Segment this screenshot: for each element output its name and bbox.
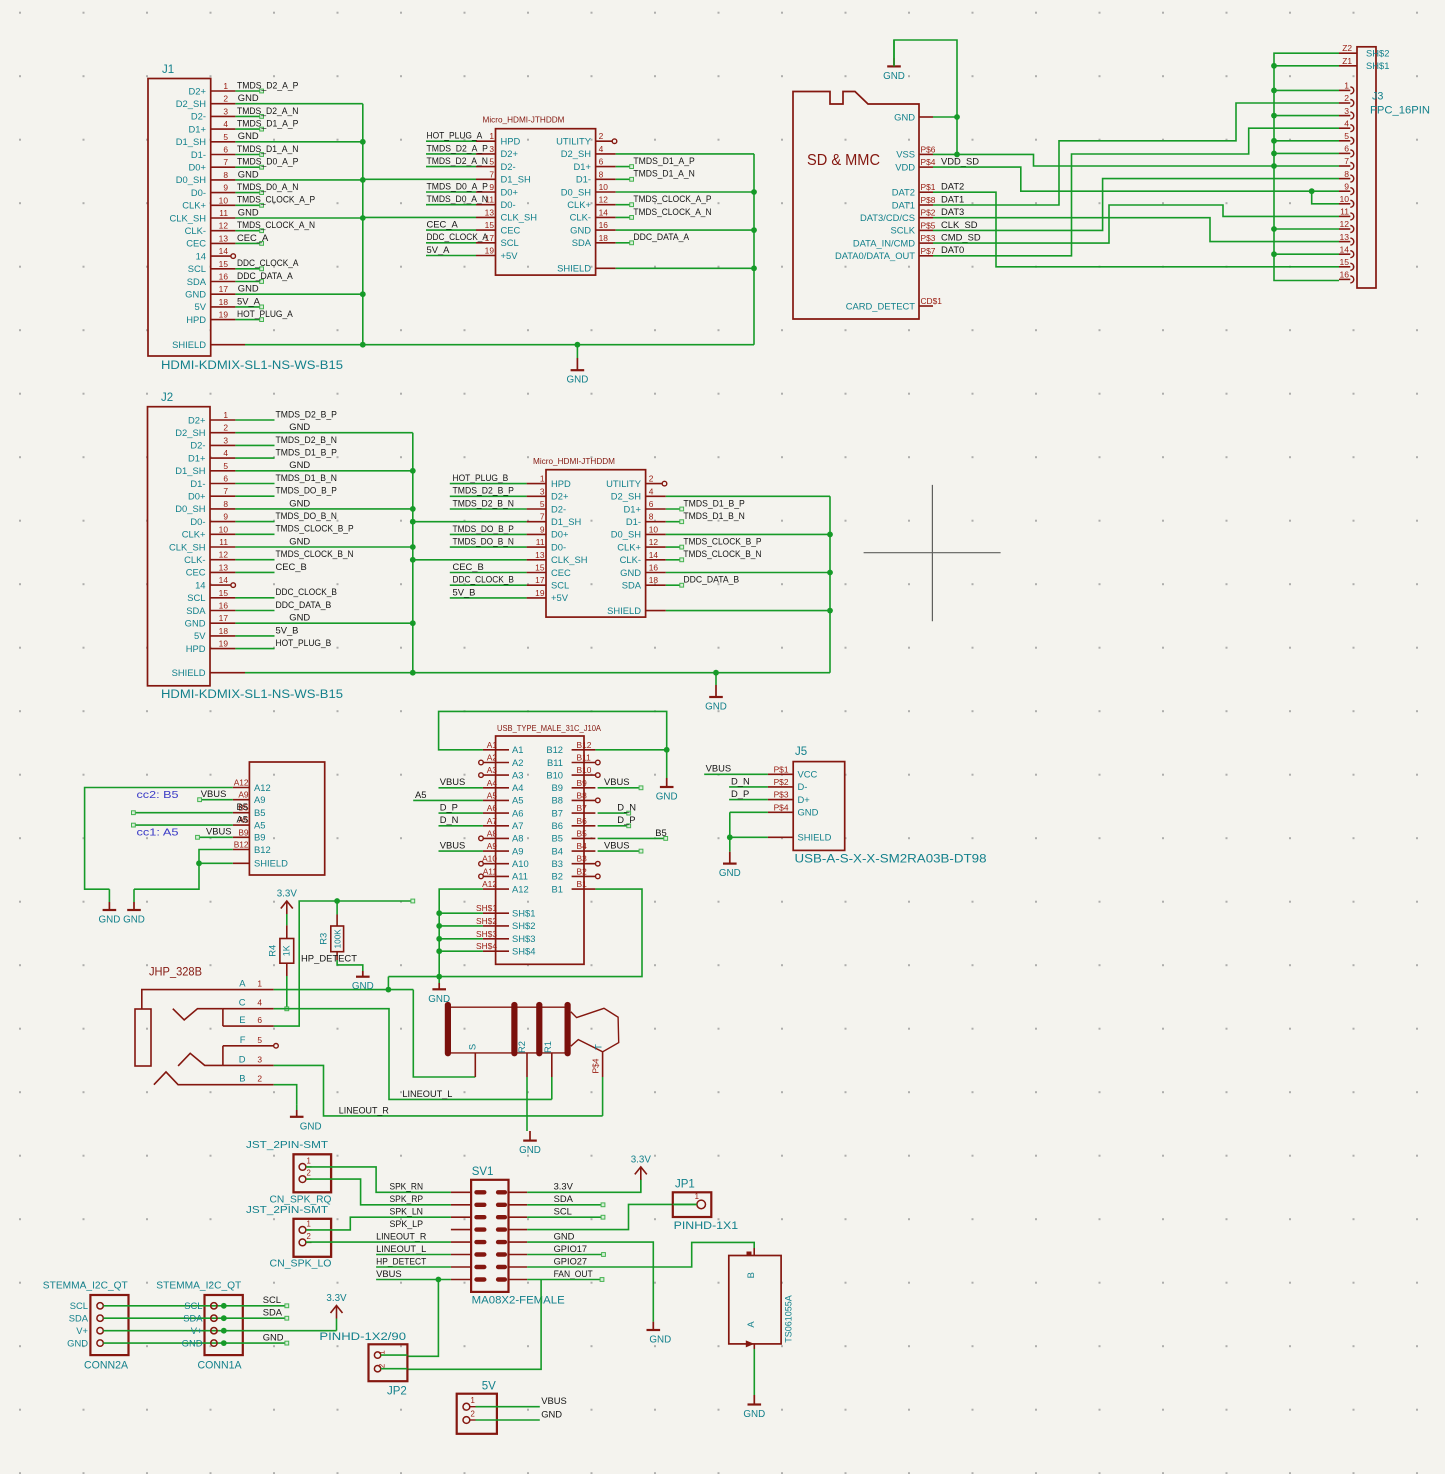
svg-text:B8: B8 xyxy=(552,795,563,806)
svg-text:GND: GND xyxy=(883,71,905,82)
junction xyxy=(196,860,202,866)
svg-text:19: 19 xyxy=(219,639,229,649)
J2 pin 1 xyxy=(210,408,337,420)
plug pin R2 xyxy=(526,1053,528,1077)
svg-text:B5: B5 xyxy=(552,833,563,844)
svg-text:TMDS_CLOCK_B_P: TMDS_CLOCK_B_P xyxy=(276,523,354,534)
svg-text:SHIELD: SHIELD xyxy=(607,605,641,616)
svg-text:D0_SH: D0_SH xyxy=(175,503,205,514)
svg-text:A9: A9 xyxy=(512,845,523,856)
label A5 on A5 xyxy=(413,789,483,801)
svg-text:STEMMA_I2C_QT: STEMMA_I2C_QT xyxy=(43,1281,128,1292)
connector J3 FPC_16PIN body xyxy=(1357,47,1430,288)
J1 pin 13 xyxy=(211,232,269,246)
jack pin A 1 xyxy=(142,978,274,1009)
svg-text:7: 7 xyxy=(489,169,494,179)
svg-text:D0+: D0+ xyxy=(189,162,207,173)
svg-text:SD & MMC: SD & MMC xyxy=(807,152,880,169)
svg-text:SPK_LP: SPK_LP xyxy=(390,1218,424,1229)
svg-text:P$2: P$2 xyxy=(774,777,789,787)
svg-text:12: 12 xyxy=(219,550,229,560)
USB pin B4 xyxy=(552,841,596,856)
svg-text:A: A xyxy=(745,1321,756,1328)
svg-text:9: 9 xyxy=(540,524,545,534)
svg-text:DDC_DATA_B: DDC_DATA_B xyxy=(276,599,332,610)
U-A pin 7 xyxy=(476,169,496,179)
svg-text:5V_A: 5V_A xyxy=(237,295,261,306)
svg-text:TMDS_D0_A_P: TMDS_D0_A_P xyxy=(427,180,488,191)
svg-text:TMDS_D0_A_P: TMDS_D0_A_P xyxy=(237,156,298,167)
svg-text:CLK+: CLK+ xyxy=(567,199,591,210)
U-B pin 5 xyxy=(450,497,546,509)
svg-text:SH$1: SH$1 xyxy=(1366,60,1389,71)
wire GPIO27 to TS pin B xyxy=(527,1242,754,1267)
svg-text:HOT_PLUG_B: HOT_PLUG_B xyxy=(453,472,509,483)
J1 pin 10 xyxy=(211,194,315,208)
svg-text:5V_B: 5V_B xyxy=(453,586,476,597)
svg-text:P$1: P$1 xyxy=(921,182,936,192)
svg-text:TMDS_CLOCK_B_P: TMDS_CLOCK_B_P xyxy=(683,536,761,547)
J2 pin 15 xyxy=(210,586,337,598)
svg-text:J3: J3 xyxy=(1372,91,1383,103)
J1 pin 17 xyxy=(211,283,363,295)
svg-text:13: 13 xyxy=(219,233,229,243)
svg-text:A5: A5 xyxy=(512,795,523,806)
svg-text:B4: B4 xyxy=(577,841,588,851)
svg-text:D2-: D2- xyxy=(190,440,205,451)
svg-text:CONN2A: CONN2A xyxy=(84,1360,129,1372)
svg-text:R4: R4 xyxy=(267,945,278,957)
wire J1 GND rail xyxy=(360,104,366,348)
wire USB A12 SH rail to GND xyxy=(436,889,483,979)
svg-text:VBUS: VBUS xyxy=(201,788,227,799)
J1 pin 9 xyxy=(211,181,299,195)
svg-text:FPC_16PIN: FPC_16PIN xyxy=(1370,105,1430,117)
J1 pin 16 xyxy=(211,270,294,284)
svg-text:VBUS: VBUS xyxy=(440,840,466,851)
wire U-B shield bus right xyxy=(666,496,833,672)
svg-text:VBUS: VBUS xyxy=(541,1395,567,1406)
svg-text:GND: GND xyxy=(554,1231,575,1242)
svg-text:D0-: D0- xyxy=(191,187,206,198)
CC-pads pin B12 xyxy=(233,840,271,855)
svg-text:HOT_PLUG_A: HOT_PLUG_A xyxy=(427,130,483,141)
svg-text:TMDS_D2_B_N: TMDS_D2_B_N xyxy=(276,434,337,445)
U-A pin 19 xyxy=(426,244,496,256)
svg-text:SH$2: SH$2 xyxy=(512,920,535,931)
svg-text:2: 2 xyxy=(307,1232,311,1241)
svg-text:A5: A5 xyxy=(487,790,498,800)
svg-text:VSS: VSS xyxy=(896,149,915,160)
USB pin A9 xyxy=(483,841,524,856)
USB pin B8 xyxy=(552,790,601,805)
svg-text:D: D xyxy=(239,1053,246,1064)
svg-text:SDA: SDA xyxy=(186,605,206,616)
svg-text:D0+: D0+ xyxy=(551,529,569,540)
svg-text:P$4: P$4 xyxy=(591,1058,601,1073)
svg-text:HP_DETECT: HP_DETECT xyxy=(376,1255,426,1266)
USB pin B5 xyxy=(552,828,596,843)
svg-text:14: 14 xyxy=(195,579,205,590)
CC-pads pin A9 xyxy=(233,790,266,805)
junction xyxy=(436,1277,442,1283)
audio plug drawing xyxy=(448,1005,619,1073)
svg-text:D-: D- xyxy=(798,781,808,792)
J5 pin D- xyxy=(768,777,808,792)
U-B pin 8 xyxy=(646,510,745,524)
svg-text:5V: 5V xyxy=(482,1381,496,1393)
svg-text:D_N: D_N xyxy=(731,775,750,786)
svg-text:cc2: B5: cc2: B5 xyxy=(137,789,179,801)
jack ring lever xyxy=(178,1053,223,1066)
svg-text:15: 15 xyxy=(219,588,229,598)
connector J1 HDMI-KDMIX-SL1-NS-WS-B15 body xyxy=(148,79,211,357)
U-A pin 11 xyxy=(426,193,496,205)
svg-text:JHP_328B: JHP_328B xyxy=(149,965,202,979)
svg-text:A2: A2 xyxy=(512,757,523,768)
svg-text:GND: GND xyxy=(99,915,121,926)
svg-text:4: 4 xyxy=(1344,118,1349,128)
svg-text:TMDS_D2_A_P: TMDS_D2_A_P xyxy=(427,142,488,153)
power GND symbol under U-B xyxy=(705,670,727,713)
CONN2A pin SDA xyxy=(69,1313,104,1324)
svg-text:7: 7 xyxy=(223,486,228,496)
svg-text:A8: A8 xyxy=(487,828,498,838)
USB pin B2 xyxy=(552,866,601,881)
svg-text:LINEOUT_R: LINEOUT_R xyxy=(376,1231,426,1242)
wire I2C GND xyxy=(103,1332,288,1346)
svg-text:B12: B12 xyxy=(254,844,271,855)
svg-text:B5: B5 xyxy=(577,828,588,838)
svg-text:2: 2 xyxy=(223,94,228,104)
svg-text:GND: GND xyxy=(123,915,145,926)
svg-text:A1: A1 xyxy=(487,740,498,750)
svg-text:CLK-: CLK- xyxy=(184,554,205,565)
svg-text:A4: A4 xyxy=(512,782,523,793)
svg-text:D+: D+ xyxy=(798,794,811,805)
wire LINEOUT_L to SV1 xyxy=(376,1254,451,1256)
svg-text:B6: B6 xyxy=(577,816,588,826)
J2 pin 9 xyxy=(210,510,337,522)
U-B pin 13 xyxy=(527,550,546,560)
J3 pin 16 xyxy=(1339,270,1354,283)
svg-text:TMDS_DO_B_P: TMDS_DO_B_P xyxy=(453,523,514,534)
svg-text:SCL: SCL xyxy=(263,1294,281,1305)
U-A pin 17 xyxy=(426,231,496,243)
wire I2C SDA xyxy=(103,1307,288,1321)
svg-text:P$4: P$4 xyxy=(921,157,936,167)
svg-text:TMDS_CLOCK_B_N: TMDS_CLOCK_B_N xyxy=(276,548,354,559)
svg-text:14: 14 xyxy=(599,207,609,217)
resistor R3 100K xyxy=(318,901,344,960)
power GND symbol under U-A xyxy=(567,342,589,386)
USB pin A10 xyxy=(479,854,529,869)
svg-text:VBUS: VBUS xyxy=(376,1268,402,1279)
svg-text:CLK_SH: CLK_SH xyxy=(501,212,537,223)
J1 pin 1 xyxy=(211,79,299,93)
wire HP_DETECT to SV1 xyxy=(376,1266,451,1268)
connector CC-pads body xyxy=(249,762,324,875)
svg-text:4: 4 xyxy=(223,448,228,458)
svg-text:J1: J1 xyxy=(162,64,174,76)
svg-text:Micro_HDMI-JTHDDM: Micro_HDMI-JTHDDM xyxy=(533,456,615,466)
svg-text:D2_SH: D2_SH xyxy=(176,98,206,109)
CC-pads pin B5 xyxy=(233,803,266,818)
U-A SHIELD pin xyxy=(596,267,616,269)
svg-text:GPIO27: GPIO27 xyxy=(554,1255,588,1266)
svg-text:D0+: D0+ xyxy=(501,186,519,197)
USB pin A1 xyxy=(483,740,524,755)
U-A pin 1 xyxy=(426,130,496,142)
wire U-A shield bus right xyxy=(616,154,757,345)
svg-text:D2-: D2- xyxy=(191,111,206,122)
svg-text:SDA: SDA xyxy=(572,237,592,248)
svg-text:TMDS_CLOCK_A_N: TMDS_CLOCK_A_N xyxy=(633,206,711,217)
svg-text:12: 12 xyxy=(219,221,229,231)
svg-text:A3: A3 xyxy=(512,769,523,780)
sheet center cross marker xyxy=(864,485,1001,621)
svg-text:D0_SH: D0_SH xyxy=(611,529,641,540)
svg-text:18: 18 xyxy=(599,233,609,243)
svg-text:VDD_SD: VDD_SD xyxy=(941,156,979,167)
svg-text:14: 14 xyxy=(219,246,229,256)
plug pin S xyxy=(474,1053,476,1077)
connector CONN2A STEMMA_I2C_QT body xyxy=(43,1281,129,1372)
svg-text:TMDS_D1_B_N: TMDS_D1_B_N xyxy=(276,472,337,483)
USB pin B10 xyxy=(546,765,600,780)
USB pin A6 xyxy=(483,803,524,818)
svg-text:R2: R2 xyxy=(516,1041,527,1053)
svg-text:LINEOUT_L: LINEOUT_L xyxy=(402,1088,452,1099)
svg-text:A12: A12 xyxy=(234,778,249,788)
U-B pin 15 xyxy=(450,561,546,573)
svg-text:SCL: SCL xyxy=(501,237,519,248)
svg-text:P$4: P$4 xyxy=(774,802,789,812)
power GND symbol under TS061055A xyxy=(753,1395,755,1405)
svg-text:A10: A10 xyxy=(512,858,529,869)
U-A pin 8 xyxy=(596,168,695,182)
J1 SHIELD pin xyxy=(211,344,363,346)
J2 pin 19 xyxy=(210,637,331,649)
svg-text:1: 1 xyxy=(378,1350,387,1354)
svg-text:8: 8 xyxy=(223,499,228,509)
svg-text:B8: B8 xyxy=(577,790,588,800)
svg-text:SDA: SDA xyxy=(69,1313,89,1324)
svg-text:TMDS_DO_B_N: TMDS_DO_B_N xyxy=(276,510,337,521)
label VBUS on CC B9 xyxy=(196,826,233,840)
CONN1A pin V+ xyxy=(191,1325,227,1336)
TS061055A pin A with arrow xyxy=(746,1340,755,1395)
svg-text:DDC_CLOCK_B: DDC_CLOCK_B xyxy=(276,586,337,597)
J3 pin 1 xyxy=(1339,81,1354,94)
svg-text:B12: B12 xyxy=(234,840,249,850)
svg-text:VCC: VCC xyxy=(798,769,818,780)
U-B pin 3 xyxy=(450,485,546,497)
J3 pin 9 xyxy=(1339,181,1354,194)
svg-text:HOT_PLUG_A: HOT_PLUG_A xyxy=(237,308,293,319)
svg-text:D2-: D2- xyxy=(551,503,566,514)
jack pin F 5 unconnected xyxy=(223,1034,278,1066)
svg-text:CLK+: CLK+ xyxy=(182,200,206,211)
U-B pin 6 xyxy=(646,497,745,511)
J2 pin 2 xyxy=(210,421,413,433)
U-B pin 16 xyxy=(646,563,666,573)
svg-text:SH$1: SH$1 xyxy=(512,908,535,919)
svg-text:15: 15 xyxy=(219,259,229,269)
svg-text:GND: GND xyxy=(289,459,310,470)
U-B pin 10 xyxy=(646,524,666,534)
USB pin B1 xyxy=(552,879,596,894)
wire jack D to plug T LINEOUT_R xyxy=(274,1065,603,1116)
svg-text:B3: B3 xyxy=(577,854,588,864)
jack pin E 6 xyxy=(223,1014,274,1026)
svg-text:TMDS_CLOCK_A_P: TMDS_CLOCK_A_P xyxy=(633,193,711,204)
power GND symbol right of USB xyxy=(666,750,668,778)
IC TS061055A body xyxy=(729,1252,794,1344)
svg-text:1: 1 xyxy=(307,1219,311,1228)
J3 pin 13 xyxy=(1339,232,1354,245)
svg-text:HDMI-KDMIX-SL1-NS-WS-B15: HDMI-KDMIX-SL1-NS-WS-B15 xyxy=(161,360,343,372)
svg-text:A12: A12 xyxy=(254,782,271,793)
J5 pin D+ xyxy=(768,790,810,805)
svg-text:A8: A8 xyxy=(512,833,523,844)
svg-text:J2: J2 xyxy=(161,392,173,404)
J5 pin GND xyxy=(768,802,819,817)
svg-text:6: 6 xyxy=(1344,144,1349,154)
svg-text:SH$4: SH$4 xyxy=(476,941,497,951)
SD&MMC pin GND xyxy=(894,111,933,122)
svg-text:SH$1: SH$1 xyxy=(476,903,497,913)
J2 pin 3 xyxy=(210,434,337,446)
svg-text:SDA: SDA xyxy=(187,276,207,287)
svg-text:D_P: D_P xyxy=(617,814,635,825)
svg-text:SH$4: SH$4 xyxy=(512,946,535,957)
junction xyxy=(727,834,733,840)
U-A pin 2 xyxy=(596,131,617,143)
svg-text:18: 18 xyxy=(219,626,229,636)
svg-text:9: 9 xyxy=(489,182,494,192)
J1 pin 8 xyxy=(211,168,363,180)
jack pin D 3 xyxy=(223,1053,274,1065)
svg-text:17: 17 xyxy=(219,284,229,294)
svg-text:SCL: SCL xyxy=(188,263,206,274)
svg-text:GND: GND xyxy=(705,702,727,713)
svg-text:DDC_DATA_A: DDC_DATA_A xyxy=(633,231,689,242)
J2 pin 14 xyxy=(210,575,236,587)
J2 SHIELD pin xyxy=(210,672,413,674)
svg-text:VBUS: VBUS xyxy=(440,776,466,787)
label SCL wire xyxy=(527,1215,605,1219)
J1 pin 18 xyxy=(211,295,264,309)
svg-text:9: 9 xyxy=(1344,181,1349,191)
wire plug R2 to GND xyxy=(526,1077,528,1131)
J3 pin 15 xyxy=(1339,257,1354,270)
U-A pin 13 xyxy=(476,207,496,217)
svg-text:D2+: D2+ xyxy=(501,148,519,159)
connector 5V header xyxy=(457,1381,497,1434)
svg-text:CEC: CEC xyxy=(186,238,206,249)
svg-text:P$3: P$3 xyxy=(921,233,936,243)
svg-text:A5: A5 xyxy=(254,819,265,830)
svg-text:3: 3 xyxy=(1344,106,1349,116)
CONN2A pin SCL xyxy=(70,1300,104,1311)
U-B pin 17 xyxy=(450,574,546,586)
svg-text:D2_SH: D2_SH xyxy=(175,427,205,438)
svg-text:B1: B1 xyxy=(577,879,588,889)
svg-text:A9: A9 xyxy=(487,841,498,851)
svg-text:B9: B9 xyxy=(238,827,249,837)
power GND symbol left 1 xyxy=(108,889,110,902)
svg-text:10: 10 xyxy=(219,195,229,205)
USB pin SH$2 xyxy=(476,916,535,931)
svg-text:9: 9 xyxy=(223,512,228,522)
svg-text:A6: A6 xyxy=(512,807,523,818)
svg-text:1: 1 xyxy=(307,1156,311,1165)
J2 pin 8 xyxy=(210,497,413,509)
svg-text:GND: GND xyxy=(289,497,310,508)
svg-text:CN_SPK_RQ: CN_SPK_RQ xyxy=(270,1194,332,1206)
svg-text:SV1: SV1 xyxy=(472,1166,494,1178)
svg-text:B7: B7 xyxy=(577,803,588,813)
svg-text:J5: J5 xyxy=(795,746,807,758)
svg-text:3.3V: 3.3V xyxy=(631,1154,652,1165)
svg-text:STEMMA_I2C_QT: STEMMA_I2C_QT xyxy=(156,1281,241,1292)
svg-text:D1+: D1+ xyxy=(624,503,642,514)
svg-text:1: 1 xyxy=(695,1192,699,1201)
svg-text:B10: B10 xyxy=(546,769,563,780)
svg-text:D1_SH: D1_SH xyxy=(501,174,531,185)
svg-text:VBUS: VBUS xyxy=(706,763,732,774)
label D_N to J5 D- xyxy=(729,775,768,787)
SD&MMC pin DATA0/DATA_OUT xyxy=(835,244,964,261)
U-A pin 18 xyxy=(596,231,690,245)
J1 pin 11 xyxy=(211,206,363,218)
wire DAT3 to J3 pin 13 xyxy=(933,218,1339,242)
connector JP1 PINHD-1X1 xyxy=(673,1179,738,1232)
J1 pin 19 xyxy=(211,308,294,322)
J1 pin 6 xyxy=(211,143,299,157)
svg-text:CLK+: CLK+ xyxy=(182,529,206,540)
J5 pin VCC xyxy=(768,764,818,779)
junction xyxy=(221,1328,227,1334)
svg-text:5: 5 xyxy=(489,157,494,167)
USB pin A4 xyxy=(483,778,524,793)
junction xyxy=(410,519,416,525)
svg-text:CD$1: CD$1 xyxy=(921,296,943,306)
svg-text:GND: GND xyxy=(289,612,310,623)
svg-text:B5: B5 xyxy=(237,801,248,812)
svg-text:18: 18 xyxy=(219,297,229,307)
svg-text:SDA: SDA xyxy=(183,1313,203,1324)
svg-text:SCLK: SCLK xyxy=(891,225,916,236)
connector CN_SPK_LO JST_2PIN-SMT xyxy=(246,1205,332,1269)
svg-text:DAT3/CD/CS: DAT3/CD/CS xyxy=(860,212,915,223)
svg-text:4: 4 xyxy=(599,144,604,154)
svg-text:GND: GND xyxy=(798,807,819,818)
svg-text:8: 8 xyxy=(1344,169,1349,179)
J3 pin 14 xyxy=(1339,244,1354,257)
svg-text:CLK-: CLK- xyxy=(570,212,591,223)
svg-text:P$5: P$5 xyxy=(921,220,936,230)
svg-text:SHIELD: SHIELD xyxy=(172,667,206,678)
svg-text:MA08X2-FEMALE: MA08X2-FEMALE xyxy=(472,1295,565,1307)
svg-text:B5: B5 xyxy=(655,827,666,838)
svg-text:17: 17 xyxy=(535,575,545,585)
junction xyxy=(410,557,416,563)
svg-text:TMDS_D2_A_P: TMDS_D2_A_P xyxy=(237,79,298,90)
J3 pin 4 xyxy=(1339,118,1354,131)
svg-text:TMDS_D2_A_N: TMDS_D2_A_N xyxy=(237,105,298,116)
